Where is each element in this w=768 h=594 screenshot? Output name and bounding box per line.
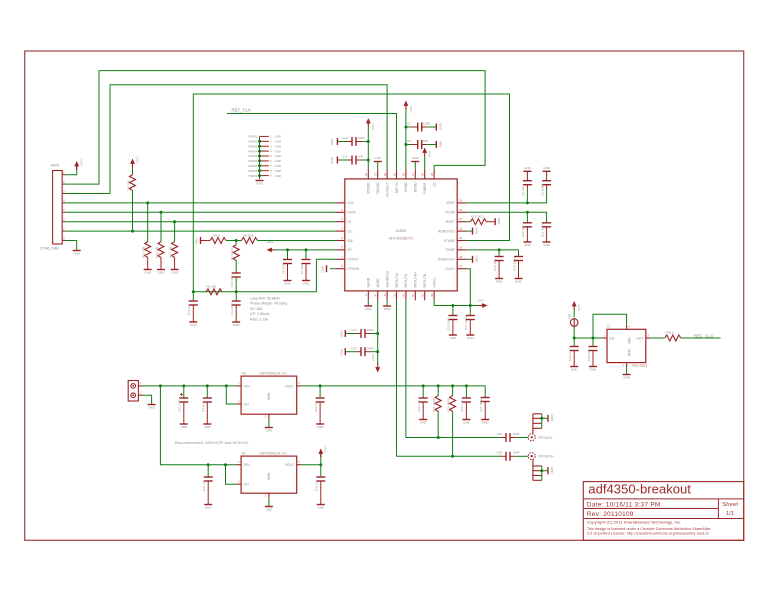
connector J1 power input [128, 381, 143, 402]
svg-text:Sheet: Sheet [722, 502, 738, 508]
wire VP net [276, 249, 336, 251]
svg-text:GND: GND [180, 425, 188, 429]
svg-text:GND: GND [275, 149, 281, 153]
svg-text:CE: CE [347, 229, 352, 233]
ground under U3 [265, 428, 273, 433]
pad PAD67 [249, 164, 281, 168]
wire conn pin1 to +3V3 [66, 166, 77, 175]
ground above C3 [543, 166, 551, 172]
svg-text:+3V3: +3V3 [477, 299, 484, 303]
svg-text:19: 19 [459, 245, 462, 249]
power +3V3 P8 (U2 output) [318, 446, 327, 458]
connector X2 CON6_2MM body [40, 164, 62, 251]
svg-text:PAD63: PAD63 [249, 144, 258, 148]
wire RFOUTA- row [406, 437, 502, 439]
connector pin 1 stub [62, 172, 65, 175]
svg-text:VOUT: VOUT [285, 384, 294, 388]
sheet box [722, 502, 738, 517]
svg-text:21: 21 [459, 227, 462, 231]
junction AVDD C15 [376, 332, 379, 335]
power +3V3 P3 (SDVDD) [366, 118, 375, 170]
resistor R12 5K11 [467, 215, 495, 225]
wire U2 output +3V3 [301, 454, 320, 465]
resistor R5 DNI [242, 233, 258, 243]
svg-text:GND: GND [275, 159, 281, 163]
junction R6/CE [131, 230, 134, 233]
svg-text:This design is licensed under: This design is licensed under a Creative… [587, 527, 711, 531]
svg-text:R17 10K: R17 10K [168, 246, 172, 258]
wire U2 input branch [160, 386, 236, 465]
svg-text:14: 14 [411, 293, 415, 296]
regulator U2 ADP150AUJZ-3.3 [236, 451, 301, 498]
svg-text:GND: GND [233, 323, 241, 327]
ground above DGND pin [411, 156, 419, 170]
svg-text:CON6_2MM: CON6_2MM [40, 246, 59, 250]
svg-text:28: 28 [402, 172, 406, 175]
svg-text:GND: GND [475, 227, 479, 235]
svg-text:Recommended: 6SR007R and 6V3/1: Recommended: 6SR007R and 6V3/10V [175, 441, 249, 445]
oscillator Y1 RO3_E053 [602, 325, 650, 368]
svg-text:GND: GND [438, 141, 442, 149]
svg-text:3: 3 [238, 481, 240, 484]
ground under C22 [316, 424, 324, 429]
svg-text:1: 1 [604, 334, 606, 337]
wire EN jog U3 [226, 386, 236, 404]
junction osc C29 [573, 337, 576, 340]
ground left of C35 [339, 348, 345, 356]
svg-text:4: 4 [629, 326, 631, 329]
svg-text:R2: 681: R2: 681 [250, 307, 263, 311]
pad PAD69 [249, 174, 281, 178]
junction row1 R21 [437, 436, 440, 439]
svg-text:23: 23 [459, 208, 462, 212]
svg-text:GND: GND [524, 166, 532, 170]
svg-text:8: 8 [341, 264, 343, 268]
svg-text:1: 1 [238, 382, 240, 385]
svg-text:3: 3 [648, 334, 650, 337]
ground right of R12 [495, 218, 501, 226]
svg-text:GND: GND [275, 135, 281, 139]
capacitor C32 1U [315, 465, 326, 504]
wire VREF net [467, 189, 547, 203]
svg-text:1: 1 [140, 382, 142, 385]
capacitor C31 1U [202, 465, 213, 504]
svg-text:GND: GND [497, 218, 501, 226]
svg-text:3: 3 [63, 190, 65, 193]
svg-text:GND: GND [275, 154, 281, 158]
capacitor C27 100N [479, 398, 490, 420]
ground right of C5 [436, 123, 442, 131]
svg-text:GND: GND [515, 280, 523, 284]
svg-text:RFOUTA+: RFOUTA+ [395, 272, 399, 287]
pad PAD68 [249, 169, 281, 173]
svg-text:C25 1.2P: C25 1.2P [460, 399, 464, 412]
svg-text:RFOUTB+: RFOUTB+ [414, 272, 418, 288]
connector pin 5 stub [62, 209, 65, 212]
ground under Y1 [623, 375, 631, 380]
wire R4 to node [226, 240, 242, 242]
svg-text:16: 16 [430, 293, 434, 296]
svg-text:C8 100N: C8 100N [281, 262, 285, 274]
svg-text:VIN: VIN [244, 384, 250, 388]
ground left of C15 [339, 330, 345, 338]
svg-text:R1 31K6: R1 31K6 [230, 248, 234, 260]
svg-text:3.0 Unported License: http://c: 3.0 Unported License: http://creativecom… [587, 532, 710, 536]
svg-text:9: 9 [364, 293, 368, 295]
svg-text:GND: GND [284, 282, 292, 286]
capacitor C19 100N [512, 257, 523, 279]
svg-text:EN: EN [610, 336, 615, 340]
svg-text:2: 2 [63, 181, 65, 184]
title text [588, 481, 691, 496]
svg-text:GND: GND [266, 508, 274, 512]
svg-text:17: 17 [459, 264, 462, 268]
resistor R4 0 [201, 233, 227, 243]
svg-text:LE: LE [347, 220, 352, 224]
svg-text:VIN: VIN [244, 463, 250, 467]
junction C6 [404, 143, 407, 146]
svg-text:Y1: Y1 [607, 325, 611, 329]
ground left of R4 [195, 237, 201, 245]
svg-text:C18 10P: C18 10P [493, 259, 497, 271]
svg-text:GND: GND [623, 376, 631, 380]
capacitor C14 10P [338, 155, 368, 165]
ground under C10 [189, 322, 197, 327]
wire REF_CLK to REFIN [227, 114, 397, 170]
ferrite bead FB1 [568, 313, 578, 338]
svg-text:7: 7 [63, 228, 65, 231]
svg-text:PAD66: PAD66 [249, 159, 258, 163]
ground above C2 [523, 166, 531, 172]
svg-text:22: 22 [459, 217, 462, 221]
svg-text:5: 5 [63, 209, 65, 212]
svg-text:Rev: 20110109: Rev: 20110109 [587, 511, 634, 518]
ground under C12 [232, 322, 240, 327]
capacitor C17 100N [464, 306, 475, 335]
svg-text:ADF4350BCPZ: ADF4350BCPZ [389, 237, 414, 241]
svg-text:PAD61: PAD61 [249, 135, 258, 139]
svg-text:7: 7 [341, 255, 343, 259]
svg-text:FB1: FB1 [568, 313, 572, 319]
svg-text:9: 9 [270, 176, 272, 178]
svg-text:100N: 100N [423, 122, 430, 126]
svg-text:GND: GND [158, 271, 166, 275]
net label REF_CLK (top) [232, 108, 252, 113]
svg-text:RFOUTB-: RFOUTB- [423, 273, 427, 288]
svg-text:8: 8 [270, 171, 272, 173]
svg-text:GND: GND [365, 307, 373, 311]
pad PAD66 [249, 159, 281, 163]
ground under C27 [481, 420, 489, 425]
ground under R15 [144, 270, 152, 275]
svg-text:GND: GND [412, 156, 420, 160]
svg-text:GND: GND [317, 425, 325, 429]
svg-text:GND: GND [374, 156, 382, 160]
svg-text:DATA: DATA [347, 211, 356, 215]
power +3V3 P5 (PDBRF) [422, 148, 431, 170]
wire CPOUT net [193, 259, 335, 292]
svg-text:1/1: 1/1 [726, 511, 734, 517]
svg-text:GND: GND [543, 166, 551, 170]
capacitor C23 2U2 [178, 386, 189, 424]
svg-text:C4 1U: C4 1U [201, 403, 205, 412]
capacitor C18 10P [493, 250, 504, 278]
ground SMA X3 [548, 415, 554, 423]
svg-text:+3V3: +3V3 [266, 240, 273, 244]
date row [587, 502, 661, 509]
svg-text:GND: GND [330, 156, 334, 164]
svg-text:4: 4 [270, 151, 272, 153]
svg-text:PAD64: PAD64 [249, 149, 258, 153]
power +3V3 P6 (AVDD, points down) [371, 354, 380, 372]
capacitor C11 47N [230, 261, 241, 292]
svg-text:ADP150AUJZ-3.3: ADP150AUJZ-3.3 [260, 371, 287, 375]
svg-text:TEMP: TEMP [446, 248, 456, 252]
svg-text:3: 3 [341, 217, 343, 221]
wire VVCO pin17 [467, 269, 471, 306]
svg-text:GND: GND [205, 506, 213, 510]
power +3V3 P4 (DVDD) [404, 101, 413, 170]
svg-text:12: 12 [392, 293, 396, 296]
wire EN jog U2 [226, 465, 237, 485]
svg-text:GND: GND [171, 271, 179, 275]
svg-text:U3: U3 [242, 371, 246, 375]
svg-text:6: 6 [63, 219, 65, 222]
wire VIN rail [143, 385, 237, 387]
svg-text:+3V3: +3V3 [324, 446, 328, 453]
svg-text:R15 10K: R15 10K [142, 246, 146, 258]
net label REF_CLK (oscillator) [694, 333, 714, 338]
svg-text:C11 47N: C11 47N [230, 275, 234, 287]
svg-text:AGNDVCO: AGNDVCO [385, 270, 389, 287]
power +3V3 P7 (VVCO, points right) [477, 299, 488, 308]
svg-text:VVCO: VVCO [445, 267, 455, 271]
svg-text:DATA: DATA [51, 164, 60, 168]
svg-text:GND: GND [266, 429, 274, 433]
svg-text:Rset: 5.10k: Rset: 5.10k [250, 317, 268, 321]
svg-text:11: 11 [383, 293, 387, 296]
svg-text:GND: GND [475, 256, 479, 264]
junction rail C24 [422, 384, 425, 387]
svg-text:C3 100N: C3 100N [540, 184, 544, 196]
op-amp U1SB1 ADF4350BCPZ main IC [335, 170, 466, 301]
svg-text:R5 DNI: R5 DNI [244, 233, 254, 237]
capacitor C16 10P [447, 306, 458, 335]
wire U3 gnd [268, 419, 270, 427]
power +3V3 P9 (oscillator) [572, 301, 581, 317]
svg-text:4: 4 [341, 227, 343, 231]
capacitor C3 100N [540, 172, 551, 196]
wire conn pin2 / LD net [66, 71, 486, 185]
svg-text:AGNDVCO: AGNDVCO [438, 229, 455, 233]
connector X3 RFOUTA- SMA [528, 434, 553, 441]
svg-text:30: 30 [383, 172, 387, 175]
junction C5 [404, 126, 407, 129]
junction VP C8 [286, 248, 289, 251]
svg-text:C32 1U: C32 1U [315, 481, 319, 491]
svg-text:R18 0: R18 0 [666, 331, 674, 335]
svg-text:1: 1 [341, 198, 343, 202]
resistor R6 10K pull-up [126, 156, 139, 231]
svg-text:GND: GND [339, 348, 343, 356]
svg-text:18: 18 [459, 255, 462, 259]
junction C13 [367, 140, 370, 143]
svg-text:C24 1.2P: C24 1.2P [417, 399, 421, 412]
svg-text:GND: GND [148, 406, 156, 410]
SMA X2 shield pins [533, 460, 548, 481]
svg-text:REF IN: REF IN [395, 182, 399, 193]
wire conn pin8 to ground [66, 241, 77, 251]
svg-text:29: 29 [392, 172, 396, 175]
svg-text:GND: GND [450, 336, 458, 340]
svg-text:R21 49R9: R21 49R9 [432, 398, 436, 412]
ground under C21 [543, 242, 551, 247]
svg-text:31: 31 [374, 172, 378, 175]
svg-text:GND: GND [550, 415, 554, 423]
svg-text:GND: GND [463, 421, 471, 425]
svg-text:Phase Margin: 45.0deg: Phase Margin: 45.0deg [250, 302, 287, 306]
svg-text:EN: EN [244, 402, 249, 406]
svg-text:5: 5 [341, 236, 343, 240]
junction rail EN jog [225, 384, 228, 387]
SMA X3 shield pins [533, 414, 548, 434]
svg-text:adf4350-breakout: adf4350-breakout [588, 481, 691, 496]
svg-text:2: 2 [140, 392, 142, 395]
svg-text:+3V3: +3V3 [371, 354, 375, 361]
svg-text:VP: VP [347, 248, 352, 252]
capacitor C15 100P [346, 328, 378, 338]
svg-text:EN: EN [244, 483, 249, 487]
wire DATA net [66, 211, 336, 213]
ground under connector [73, 251, 81, 256]
junction TEMP C18 [498, 248, 501, 251]
svg-text:C7 10P: C7 10P [300, 264, 304, 274]
regulator U3 ADP150AUJZ-3.3 [236, 371, 301, 419]
ground left of C14 [330, 156, 337, 164]
svg-text:C12 15N: C12 15N [230, 303, 234, 315]
svg-text:6: 6 [341, 245, 343, 249]
capacitor C10 1U [187, 292, 198, 322]
svg-text:20: 20 [459, 236, 462, 240]
connector pin 4 stub [62, 200, 65, 203]
svg-text:100P: 100P [367, 328, 374, 332]
junction rail U2 branch [159, 384, 162, 387]
ground under C20 [523, 242, 531, 247]
svg-text:REF_CLK: REF_CLK [232, 108, 252, 113]
capacitor C24 1.2P [417, 386, 428, 419]
ground under C7 [302, 281, 310, 286]
resistor R16 10K [155, 211, 164, 269]
svg-text:DGND: DGND [414, 182, 418, 192]
svg-text:GND: GND [73, 252, 81, 256]
ground under C4 [203, 424, 211, 429]
capacitor C29 1U [568, 338, 579, 366]
svg-text:R12 5K11: R12 5K11 [471, 215, 484, 219]
capacitor C28 100P [497, 451, 529, 461]
svg-text:SDGND: SDGND [376, 182, 380, 195]
svg-text:R16 10K: R16 10K [155, 246, 159, 258]
connector pin 2 stub [62, 181, 65, 184]
svg-text:10P: 10P [358, 155, 363, 159]
svg-text:RFOUTA-: RFOUTA- [404, 273, 408, 287]
ground under R16 [157, 270, 165, 275]
capacitor C5 100N [406, 122, 436, 132]
svg-text:R6 10K: R6 10K [126, 180, 130, 190]
pad PAD65 [249, 154, 281, 158]
svg-text:13: 13 [402, 293, 406, 296]
svg-text:5: 5 [270, 156, 272, 158]
svg-text:GND: GND [275, 169, 281, 173]
title block outline [583, 482, 743, 541]
svg-text:C15: C15 [351, 328, 357, 332]
wire osc EN net [574, 337, 602, 339]
ground under C31 [204, 505, 212, 510]
junction rail C10 [192, 290, 195, 293]
svg-text:24: 24 [459, 198, 462, 202]
svg-text:C14: C14 [342, 155, 348, 159]
svg-text:1: 1 [270, 137, 272, 139]
ground at pin 18 [467, 256, 479, 264]
capacitor C12 15N [230, 292, 241, 322]
svg-text:C6: C6 [407, 139, 411, 143]
svg-text:Date: 10/16/11 3:37 PM: Date: 10/16/11 3:37 PM [587, 502, 661, 509]
junction rail C23 [182, 384, 185, 387]
svg-text:C13: C13 [342, 136, 348, 140]
capacitor C26 100P [497, 432, 529, 442]
svg-text:GND: GND [438, 123, 442, 131]
svg-text:R4 0: R4 0 [214, 233, 221, 237]
svg-text:2: 2 [341, 208, 343, 212]
svg-text:2: 2 [622, 364, 624, 367]
svg-text:25: 25 [430, 172, 434, 175]
svg-text:AGNDVCO: AGNDVCO [438, 258, 455, 262]
svg-text:U1SB1: U1SB1 [395, 229, 406, 233]
svg-text:VOUT: VOUT [285, 463, 294, 467]
svg-text:C26: C26 [497, 432, 503, 436]
svg-text:SDVDD: SDVDD [367, 182, 371, 194]
svg-text:C16 10P: C16 10P [447, 318, 451, 330]
svg-text:15: 15 [421, 293, 425, 296]
svg-text:GND: GND [275, 144, 281, 148]
svg-text:3: 3 [238, 400, 240, 403]
resistor R17 10K [168, 220, 177, 269]
svg-text:PAD68: PAD68 [249, 169, 258, 173]
svg-text:Loop BW: 36.8kHz: Loop BW: 36.8kHz [250, 297, 280, 301]
junction VVCO C16 [451, 304, 454, 307]
ground left of C13 [330, 138, 337, 146]
svg-text:+3V3: +3V3 [409, 106, 413, 113]
svg-text:Copyright (C) 2011 ShareBraine: Copyright (C) 2011 ShareBrained Technolo… [587, 519, 681, 524]
svg-text:SW: SW [347, 239, 353, 243]
power +3V3 P1 (connector) [74, 159, 83, 171]
wire VVCO net bottom [434, 300, 483, 305]
connector X2 RFOUTA+ SMA [528, 453, 554, 460]
ground under C30 [589, 367, 597, 372]
junction SW node [235, 239, 238, 242]
drawing frame border [25, 51, 744, 540]
svg-text:VDD: VDD [627, 337, 631, 345]
ground under C18 [495, 279, 503, 284]
resistor R21 49R9 [432, 386, 441, 438]
svg-text:RFOUTA+: RFOUTA+ [538, 455, 554, 459]
wire R5 to SW pin [258, 240, 336, 242]
svg-text:5: 5 [298, 382, 300, 385]
ground right of C6 [436, 141, 442, 149]
svg-text:GND: GND [204, 425, 212, 429]
junction U2 EN jog [224, 463, 227, 466]
svg-text:PAD65: PAD65 [249, 154, 258, 158]
svg-text:C31 1U: C31 1U [202, 481, 206, 491]
